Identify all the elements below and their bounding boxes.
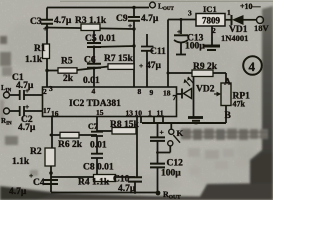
svg-text:+10—: +10— — [240, 2, 262, 11]
svg-text:18V: 18V — [254, 23, 270, 33]
svg-text:R8 15k: R8 15k — [110, 120, 139, 130]
svg-text:1N4001: 1N4001 — [221, 33, 248, 43]
svg-text:100µ: 100µ — [161, 169, 181, 179]
svg-text:+: + — [25, 86, 29, 95]
svg-text:13: 13 — [126, 109, 134, 118]
svg-text:R7 15k: R7 15k — [104, 54, 133, 64]
svg-text:+: + — [177, 27, 181, 36]
svg-text:8: 8 — [138, 87, 142, 96]
svg-text:15: 15 — [96, 108, 104, 117]
svg-text:VD2: VD2 — [196, 85, 215, 95]
svg-text:R1: R1 — [34, 44, 46, 54]
svg-text:C5 0.01: C5 0.01 — [85, 34, 116, 44]
svg-text:R3 1.1k: R3 1.1k — [75, 16, 107, 26]
svg-text:C9: C9 — [116, 14, 128, 24]
svg-text:A: A — [224, 78, 231, 88]
svg-text:C6: C6 — [84, 56, 96, 66]
svg-text:4.7µ: 4.7µ — [118, 184, 136, 194]
svg-text:C7: C7 — [88, 122, 98, 131]
svg-text:+: + — [160, 128, 164, 137]
svg-text:2k: 2k — [63, 74, 74, 84]
svg-text:47µ: 47µ — [146, 61, 162, 71]
svg-text:4.7µ: 4.7µ — [18, 123, 36, 133]
svg-text:4: 4 — [249, 59, 256, 74]
svg-text:17: 17 — [43, 106, 51, 115]
svg-text:K: K — [177, 128, 184, 138]
svg-text:4.7µ: 4.7µ — [141, 14, 159, 24]
svg-text:+: + — [128, 21, 132, 30]
svg-text:IC1: IC1 — [203, 4, 217, 14]
svg-text:47k: 47k — [233, 100, 246, 109]
svg-text:2: 2 — [43, 87, 47, 96]
svg-text:+: + — [25, 102, 29, 111]
svg-text:0.01: 0.01 — [90, 141, 107, 151]
svg-text:16: 16 — [51, 109, 59, 118]
svg-text:R2: R2 — [30, 147, 42, 157]
svg-text:7: 7 — [173, 93, 177, 102]
svg-text:1.1k: 1.1k — [25, 55, 43, 65]
svg-text:7809: 7809 — [202, 16, 221, 26]
svg-text:C12: C12 — [167, 159, 184, 169]
svg-text:3: 3 — [49, 84, 53, 93]
svg-text:10: 10 — [135, 109, 143, 118]
svg-text:2: 2 — [212, 26, 216, 35]
svg-text:R4 1.1k: R4 1.1k — [78, 178, 110, 188]
svg-text:R5: R5 — [61, 57, 73, 67]
svg-text:4.7µ: 4.7µ — [9, 187, 27, 197]
svg-text:3: 3 — [188, 9, 192, 18]
svg-text:100µ: 100µ — [185, 42, 205, 52]
svg-text:1: 1 — [148, 109, 152, 118]
svg-text:C4: C4 — [33, 178, 45, 188]
svg-text:C10: C10 — [113, 175, 130, 185]
svg-text:18: 18 — [163, 89, 171, 98]
svg-text:C3: C3 — [30, 17, 42, 27]
svg-text:1.1k: 1.1k — [12, 157, 30, 167]
svg-text:C11: C11 — [150, 47, 166, 57]
svg-text:4: 4 — [92, 87, 96, 96]
svg-text:B: B — [225, 111, 232, 121]
svg-text:+: + — [29, 171, 33, 180]
svg-text:R9 2k: R9 2k — [193, 62, 218, 72]
svg-text:C8 0.01: C8 0.01 — [83, 163, 114, 173]
svg-text:1: 1 — [227, 8, 231, 17]
svg-text:0.01: 0.01 — [83, 76, 100, 86]
svg-text:+: + — [43, 24, 47, 33]
svg-text:+: + — [139, 61, 143, 70]
svg-text:4.7µ: 4.7µ — [54, 16, 72, 26]
svg-text:9: 9 — [150, 88, 154, 97]
svg-text:R6 2k: R6 2k — [58, 140, 83, 150]
svg-text:11: 11 — [157, 109, 164, 118]
